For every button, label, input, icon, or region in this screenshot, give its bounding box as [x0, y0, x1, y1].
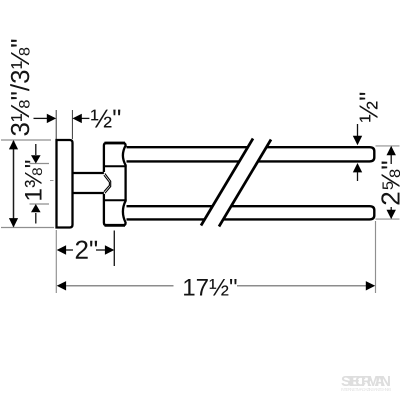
dim 3-1/8 ext line top	[1, 139, 51, 141]
arm cone inner	[104, 175, 110, 191]
dim 2-5/8 ext lines	[376, 145, 400, 147]
dim 17-1/2 ext lines	[55, 230, 57, 293]
watermark	[341, 373, 391, 392]
dim 2-5/8 line and arrows	[390, 147, 392, 164]
dim 2-5/8 text	[381, 162, 400, 205]
dim 3-1/8 line	[13, 141, 15, 227]
arm cone outer	[105, 174, 111, 194]
post body	[104, 143, 126, 225]
break gap	[198, 133, 274, 231]
dim 1-3/8 arrows	[35, 144, 37, 155]
wall plate	[57, 140, 73, 228]
svg-text:INTERNET MAGAZIN SANTEHNIKI: INTERNET MAGAZIN SANTEHNIKI	[341, 387, 391, 392]
post top thick edge	[105, 142, 126, 145]
dim 1/2 right text	[360, 93, 378, 122]
arm bottom edge	[73, 192, 106, 194]
bar bottom	[127, 206, 375, 219]
small gray tick left of plate	[50, 180, 54, 182]
arm top edge	[73, 172, 106, 174]
dim 17-1/2 line	[57, 281, 66, 290]
dim 1-3/8 text	[25, 161, 42, 200]
dim 1-3/8 ext lines	[30, 163, 50, 165]
dim 1/2 top-left arrows	[34, 117, 49, 119]
dim 2in line	[57, 245, 66, 254]
dim 1/2 top-left text	[91, 110, 120, 128]
dim 3-1/8 ext line bottom	[1, 227, 54, 229]
dim 1/2 right arrows	[357, 124, 359, 137]
post division line upper	[103, 165, 127, 167]
dim 3-1/8 text	[10, 40, 29, 136]
dim 1/2 top-left ext lines	[55, 110, 57, 139]
break line 2	[219, 140, 271, 227]
bar top	[127, 147, 375, 161]
dim 2in tick	[113, 231, 115, 267]
post division line lower	[103, 199, 127, 201]
post bottom thick edge	[105, 224, 126, 227]
break line 1	[201, 139, 253, 226]
